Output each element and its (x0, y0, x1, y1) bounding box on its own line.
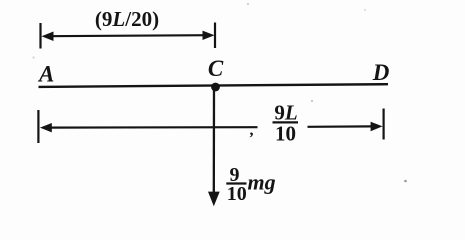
junction dot at C (211, 83, 220, 92)
stray comma mark (250, 122, 254, 139)
label 9/10 numerator of force (230, 164, 240, 186)
arrowhead right of bottom dimension (371, 122, 383, 131)
label mg of force (248, 170, 276, 195)
wire: rod A to D (39, 84, 389, 87)
label 9/10 denominator of force (227, 183, 247, 205)
svg-text:,: , (250, 122, 254, 139)
tick left end of bottom dimension (37, 110, 39, 143)
paper speck (33, 57, 35, 59)
arrowhead of force arrow (208, 192, 220, 207)
paper speck (247, 3, 249, 5)
arrowhead right of top dimension (203, 31, 215, 40)
arrowhead left of bottom dimension (40, 123, 52, 132)
node C label (208, 56, 224, 81)
paper speck (364, 9, 366, 11)
wire: force line down from C (213, 87, 215, 194)
wire: bottom dimension line left segment (44, 126, 258, 129)
tick left end of top dimension (39, 23, 41, 49)
paper speck (404, 180, 407, 183)
fraction bar of 9L/10 (273, 121, 299, 123)
svg-text:C: C (208, 56, 224, 81)
svg-text:mg: mg (248, 170, 276, 195)
node A label (37, 62, 54, 87)
label 9L/10 denominator (275, 122, 296, 146)
wire: top dimension line A to C (46, 35, 209, 36)
label 9L/10 numerator (274, 100, 297, 124)
svg-text:10: 10 (227, 183, 247, 205)
arrowhead left of top dimension (42, 32, 54, 42)
svg-text:10: 10 (275, 122, 296, 146)
node D label (372, 60, 390, 85)
tick right end of top dimension (214, 23, 216, 49)
wire: bottom dimension line right segment (308, 125, 373, 128)
label (9L/20) (95, 7, 159, 31)
tick right end of bottom dimension (383, 109, 385, 140)
fraction bar of 9/10 force (226, 182, 246, 184)
svg-text:A: A (37, 62, 54, 87)
svg-text:D: D (372, 60, 390, 85)
svg-text:(9L/20): (9L/20) (95, 7, 159, 31)
paper speck (311, 100, 313, 102)
